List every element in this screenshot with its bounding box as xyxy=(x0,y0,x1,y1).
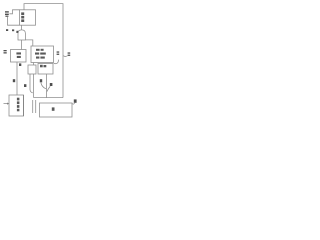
input source blob 302 xyxy=(5,11,9,17)
label left of C pin with leader xyxy=(40,79,42,82)
wire gate output down to box A xyxy=(21,40,23,50)
wire gate right to box B top xyxy=(25,40,32,46)
input arrow into E xyxy=(4,103,8,105)
wire U1 bottom to gate xyxy=(21,25,23,30)
block E vertical text xyxy=(17,98,20,112)
label right of feedback wire with leader xyxy=(68,52,71,55)
floating pair of lines xyxy=(32,100,34,113)
block C xyxy=(38,64,53,75)
wire input down to top box bottom-left xyxy=(8,17,20,25)
block U1 (top box) xyxy=(20,10,36,25)
label 324 xyxy=(4,50,7,54)
block F text xyxy=(52,107,55,110)
feedback wire from U1 top to right side down xyxy=(24,4,63,98)
label right of C pin with leader xyxy=(50,83,53,86)
label left of wire xyxy=(13,79,15,82)
block E xyxy=(9,95,24,116)
block D xyxy=(28,65,36,74)
block D right pin down to bus wire xyxy=(33,74,35,98)
block D left pin with hook xyxy=(30,74,33,93)
block C pin down to bus wire xyxy=(46,74,48,98)
label 510 with leader to F corner xyxy=(74,99,77,102)
block A text xyxy=(16,52,21,58)
label 320 with leader to B corner xyxy=(57,51,60,54)
wire input to top box top-left xyxy=(10,10,20,14)
block C text xyxy=(40,65,46,68)
block F xyxy=(40,103,73,117)
U1 vertical text xyxy=(21,12,24,22)
wire B bottom to box D xyxy=(33,63,35,66)
label 304 xyxy=(6,29,19,33)
block A xyxy=(11,50,27,63)
block B xyxy=(31,46,54,63)
bottom bus wire xyxy=(34,97,63,99)
label below box A xyxy=(19,63,21,66)
gate G1 (dome shape) xyxy=(18,30,25,40)
block B text xyxy=(35,49,46,59)
label left of D pin xyxy=(24,84,26,87)
wire box A down to box E xyxy=(16,62,18,95)
